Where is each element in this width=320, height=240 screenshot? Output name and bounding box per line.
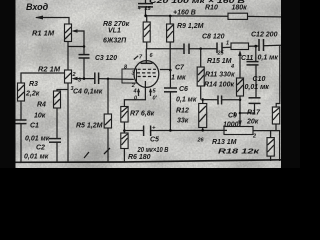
resistor R3 xyxy=(18,83,25,101)
anode output wire xyxy=(146,48,183,50)
heater pins 4 and 5 xyxy=(133,88,158,102)
node junction R14 bottom xyxy=(239,99,242,102)
node junction C3/wiper xyxy=(83,77,86,80)
resistor R11 xyxy=(197,49,204,100)
ground tick marks xyxy=(84,148,110,158)
main schematic drawing group xyxy=(15,0,282,162)
node junction R9 top on supply bus xyxy=(169,15,172,18)
wire R2 top xyxy=(67,47,69,71)
wire R13 right to R18/R17 xyxy=(253,131,280,161)
capacitor C3 xyxy=(79,47,90,79)
wire R4 to C2 xyxy=(56,108,58,138)
input wire with arrow xyxy=(35,16,69,25)
wiper of R1 xyxy=(72,29,85,46)
wire screen to C6 xyxy=(169,70,171,88)
wire to R5 xyxy=(107,79,109,114)
capacitor C1 xyxy=(15,120,27,162)
anode plate xyxy=(141,62,153,64)
resistor R13 (horizontal pot) xyxy=(224,127,253,135)
wire R3 top link xyxy=(21,73,65,83)
resistor R4 xyxy=(54,91,61,108)
wiper of R2 xyxy=(72,77,95,81)
resistor R7 xyxy=(121,107,128,134)
wire R1 bottom to junction xyxy=(68,42,84,47)
right black bar xyxy=(281,0,300,168)
resistor R17 xyxy=(272,45,279,130)
cathode xyxy=(124,81,145,107)
capacitor C5 xyxy=(144,126,227,137)
capacitor C8 xyxy=(217,43,231,54)
shield box at tube left xyxy=(122,69,137,83)
node junction dot xyxy=(83,45,86,48)
wire C12 line xyxy=(249,45,260,47)
top supply bus xyxy=(146,16,282,17)
wire branch to R4 xyxy=(57,90,68,92)
resistor R14 xyxy=(237,78,244,126)
wire R5 to bus xyxy=(107,128,109,162)
capacitor C7 xyxy=(184,44,217,55)
capacitor C4 xyxy=(95,73,134,85)
resistor R5 xyxy=(104,114,111,128)
capacitor C10 xyxy=(240,98,261,113)
node junction anode line xyxy=(199,47,202,50)
wire R2 bottom to ground bus xyxy=(67,83,69,162)
anode lead xyxy=(145,49,147,64)
wire R3 to C1 xyxy=(20,101,22,120)
node junction R11/R12 xyxy=(201,98,204,101)
capacitor C2 xyxy=(49,139,61,162)
resistor R15 (horizontal pot) xyxy=(231,43,249,78)
resistor R18 xyxy=(267,131,274,161)
node grid junction xyxy=(107,78,110,81)
left black bar xyxy=(0,0,16,168)
node junction R12 bottom xyxy=(201,129,204,132)
capacitor C11 xyxy=(247,62,259,98)
resistor R2 (pot) xyxy=(65,70,72,83)
scan paper background xyxy=(0,0,300,168)
capacitor C9 xyxy=(203,96,240,105)
tube VL1 envelope xyxy=(134,61,159,88)
ground bus xyxy=(15,160,281,163)
grid dashed lines xyxy=(137,69,157,76)
node junction C6 bottom xyxy=(169,129,172,132)
node cathode junction xyxy=(123,129,126,132)
resistor R9 xyxy=(167,16,174,42)
capacitor C12 xyxy=(259,39,281,51)
node junction screen pin xyxy=(169,69,172,72)
wire to C11 xyxy=(255,46,257,61)
resistor R8 xyxy=(143,16,150,49)
cathode bypass wire xyxy=(124,130,143,132)
resistor R10 (horizontal) xyxy=(228,13,248,19)
node junction R8 top on supply bus xyxy=(144,14,147,17)
resistor R1 (volume pot) xyxy=(65,24,72,42)
resistor R12 xyxy=(199,100,207,131)
wiper of R13 xyxy=(238,121,242,127)
wire R9 to screen pin xyxy=(169,42,171,71)
scan mottling overlay xyxy=(14,0,282,168)
resistor R6 xyxy=(121,133,128,162)
pin 1 lead xyxy=(160,69,171,71)
capacitor C20 (top electrolytic) xyxy=(138,0,154,16)
capacitor C6 xyxy=(164,88,177,130)
